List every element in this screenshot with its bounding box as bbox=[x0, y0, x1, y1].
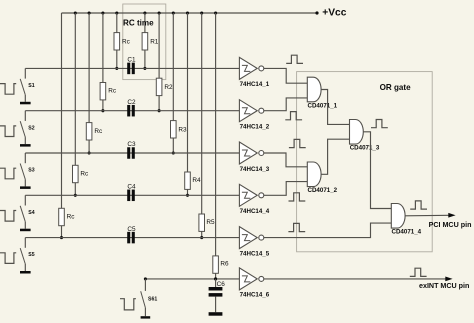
svg-text:S3: S3 bbox=[28, 168, 34, 174]
resistor Rc1 bbox=[114, 33, 131, 50]
svg-text:S61: S61 bbox=[148, 297, 157, 303]
svg-text:Rc: Rc bbox=[122, 38, 131, 45]
label: exINT MCU pin bbox=[419, 282, 469, 290]
wire: 74HC14_6 output to exINT MCU pin (arrow) bbox=[264, 277, 453, 282]
Schmitt inverter 74HC14_3 bbox=[239, 142, 269, 173]
svg-text:S4: S4 bbox=[28, 210, 34, 216]
svg-text:R6: R6 bbox=[220, 261, 229, 268]
wire: +Vcc rail to resistor R1 top (x=144.9) bbox=[144, 13, 146, 33]
capacitor C3 (series) bbox=[127, 141, 136, 159]
wire: +Vcc rail to resistor R4 top (x=187.5) bbox=[187, 13, 189, 172]
node: R6/C6 junction on row 6 bbox=[214, 277, 217, 280]
wire: resistor R3 bottom to row node bbox=[172, 138, 174, 153]
svg-text:74HC14_4: 74HC14_4 bbox=[240, 208, 270, 215]
junction on +Vcc rail col x=144.9 bbox=[143, 11, 146, 14]
svg-text:CD4071_3: CD4071_3 bbox=[350, 145, 380, 152]
capacitor C1 (series) bbox=[127, 57, 136, 75]
wire: CD4071_2 output to CD4071_3 input B bbox=[321, 139, 349, 174]
wire: +Vcc rail to resistor Rc5 top (x=61.5) bbox=[61, 13, 63, 208]
switch S3 (pushbutton to ground) bbox=[20, 153, 35, 189]
svg-text:R5: R5 bbox=[206, 219, 215, 226]
node: junction of Rc2 on row bbox=[101, 109, 104, 112]
svg-text:74HC14_1: 74HC14_1 bbox=[240, 81, 270, 88]
resistor Rc2 bbox=[100, 83, 117, 100]
waveform icon (negative pulse) at S4 bbox=[0, 211, 16, 222]
RC time dashed box bbox=[123, 4, 166, 80]
wire: row 2 horizontal (switch S2 to 74HC14_2 input) bbox=[25, 110, 239, 112]
wire: resistor R2 bottom to row node bbox=[158, 96, 160, 111]
node: rail terminal dot at +Vcc bbox=[315, 11, 318, 14]
svg-text:C5: C5 bbox=[127, 226, 136, 233]
waveform icon (negative pulse) at S61 bbox=[120, 299, 136, 310]
wire: row 6 horizontal (S61 node to 74HC14_6 input) bbox=[145, 278, 239, 280]
waveform icon (negative pulse) at S3 bbox=[0, 168, 16, 179]
OR gate CD4071_1 bbox=[307, 77, 337, 109]
waveform icon (positive pulse) at 74HC14_1 output bbox=[286, 55, 303, 63]
svg-text:S1: S1 bbox=[28, 83, 34, 89]
Schmitt inverter 74HC14_5 bbox=[239, 227, 269, 258]
wire: resistor R6 bottom to row node bbox=[215, 273, 217, 279]
wire: +Vcc rail to resistor R3 top (x=173.3) bbox=[172, 13, 174, 121]
wire: row 4 horizontal (switch S4 to 74HC14_4 input) bbox=[25, 194, 239, 196]
node: junction of R4 on row bbox=[186, 194, 189, 197]
node: S61 junction on row 6 bbox=[144, 277, 147, 280]
svg-text:S2: S2 bbox=[28, 125, 34, 131]
svg-text:Rc: Rc bbox=[80, 171, 89, 178]
svg-text:Rc: Rc bbox=[94, 128, 103, 135]
waveform icon (positive pulse) at CD4071_3 output bbox=[371, 120, 388, 128]
svg-text:PCI MCU pin: PCI MCU pin bbox=[429, 221, 472, 229]
wire: CD4071_4 output to PCI MCU pin (arrow) bbox=[405, 213, 456, 218]
wire: CD4071_1 output to CD4071_3 input A bbox=[321, 90, 349, 125]
node: junction of R2 on row bbox=[158, 109, 161, 112]
wire: resistor Rc3 bottom to row node bbox=[88, 140, 90, 153]
resistor R1 bbox=[142, 33, 159, 50]
label: PCI MCU pin bbox=[429, 221, 472, 229]
wire: resistor R4 bottom to row node bbox=[187, 189, 189, 195]
Schmitt inverter 74HC14_1 bbox=[239, 57, 269, 88]
switch S61 (pushbutton to ground) bbox=[141, 279, 158, 319]
wire: +Vcc rail to resistor Rc4 top (x=75.3) bbox=[74, 13, 76, 165]
node: junction of R3 on row bbox=[172, 151, 175, 154]
Schmitt inverter 74HC14_6 bbox=[239, 268, 269, 299]
wire: 74HC14_5 output to CD4071_4 input B bbox=[264, 223, 391, 238]
resistor Rc4 bbox=[73, 165, 90, 182]
wire: resistor R1 bottom to row node bbox=[144, 50, 146, 68]
+Vcc label bbox=[322, 8, 346, 19]
node: junction of Rc3 on row bbox=[88, 151, 91, 154]
svg-text:R2: R2 bbox=[164, 84, 173, 91]
wire: +Vcc rail to resistor Rc2 top (x=102.9) bbox=[102, 13, 104, 83]
wire: resistor Rc1 bottom to row node bbox=[116, 50, 118, 68]
wire: resistor Rc5 bottom to row node bbox=[61, 226, 63, 238]
+Vcc power rail wire bbox=[62, 12, 318, 14]
resistor R2 bbox=[156, 78, 173, 95]
Schmitt inverter 74HC14_4 bbox=[239, 184, 269, 215]
svg-text:RC time: RC time bbox=[123, 18, 154, 27]
OR gate dashed box bbox=[297, 72, 433, 252]
capacitor C2 (series) bbox=[127, 99, 136, 117]
junction on +Vcc rail col x=116.8 bbox=[115, 11, 118, 14]
capacitor C5 (series) bbox=[127, 226, 136, 244]
wire: row 3 horizontal (switch S3 to 74HC14_3 input) bbox=[25, 152, 239, 154]
wire: 74HC14_1 output to CD4071_1 input A bbox=[264, 68, 307, 83]
wire: +Vcc rail to resistor Rc1 top (x=116.8) bbox=[116, 13, 118, 33]
junction on +Vcc rail col x=187.5 bbox=[186, 11, 189, 14]
resistor Rc5 bbox=[59, 208, 76, 225]
waveform icon (positive pulse) at 74HC14_4 output bbox=[289, 193, 306, 201]
capacitor C6 bbox=[209, 281, 226, 297]
svg-text:S5: S5 bbox=[28, 252, 34, 258]
junction on +Vcc rail col x=75.3 bbox=[74, 11, 77, 14]
svg-text:74HC14_6: 74HC14_6 bbox=[240, 292, 270, 299]
wire: +Vcc rail to resistor R2 top (x=159.1) bbox=[158, 13, 160, 78]
svg-text:exINT MCU pin: exINT MCU pin bbox=[419, 282, 469, 290]
resistor R3 bbox=[171, 121, 188, 138]
svg-text:74HC14_2: 74HC14_2 bbox=[240, 124, 270, 131]
wire: row 6 junction down to capacitor C6 bbox=[215, 279, 217, 287]
switch S4 (pushbutton to ground) bbox=[20, 195, 35, 231]
wire: 74HC14_3 output to CD4071_2 input A bbox=[264, 153, 307, 167]
junction on +Vcc rail col x=215.6 bbox=[214, 11, 217, 14]
waveform icon (negative pulse) at S2 bbox=[0, 126, 16, 137]
svg-text:OR gate: OR gate bbox=[380, 83, 412, 92]
resistor R5 bbox=[199, 214, 215, 231]
svg-text:C2: C2 bbox=[127, 99, 136, 106]
wire: +Vcc rail to resistor Rc3 top (x=89.1) bbox=[88, 13, 90, 123]
switch S5 (pushbutton to ground) bbox=[20, 238, 35, 274]
svg-text:R1: R1 bbox=[150, 38, 159, 45]
svg-text:CD4071_2: CD4071_2 bbox=[308, 187, 338, 194]
svg-text:C4: C4 bbox=[127, 184, 136, 191]
Schmitt inverter 74HC14_2 bbox=[239, 100, 269, 131]
node: junction of Rc5 on row bbox=[60, 236, 63, 239]
OR gate CD4071_2 bbox=[307, 162, 337, 194]
junction on +Vcc rail col x=173.3 bbox=[172, 11, 175, 14]
svg-text:Rc: Rc bbox=[67, 214, 76, 221]
resistor Rc3 bbox=[86, 123, 103, 140]
waveform icon (positive pulse) at 74HC14_5 output bbox=[288, 223, 305, 231]
node: junction of R1 on row bbox=[143, 67, 146, 70]
OR gate CD4071_4 bbox=[391, 204, 421, 236]
svg-text:R3: R3 bbox=[178, 126, 187, 133]
svg-text:R4: R4 bbox=[192, 177, 201, 184]
svg-text:74HC14_5: 74HC14_5 bbox=[240, 250, 270, 257]
svg-text:C6: C6 bbox=[217, 281, 226, 288]
wire: resistor Rc2 bottom to row node bbox=[102, 100, 104, 111]
waveform icon (positive pulse) at 74HC14_3 output bbox=[289, 139, 306, 147]
svg-text:C1: C1 bbox=[127, 57, 136, 64]
svg-text:Rc: Rc bbox=[108, 88, 117, 95]
waveform icon (positive pulse) at PCI MCU pin bbox=[410, 201, 427, 209]
waveform icon (positive pulse) at 74HC14_2 output bbox=[285, 112, 302, 120]
waveform icon (negative pulse) at S1 bbox=[0, 84, 16, 95]
wire: +Vcc rail to resistor R5 top (x=201.7) bbox=[201, 13, 203, 214]
svg-text:CD4071_4: CD4071_4 bbox=[392, 229, 422, 236]
wire: +Vcc rail to resistor R6 top (x=215.6) bbox=[215, 13, 217, 256]
resistor R6 bbox=[213, 256, 229, 273]
resistor R4 bbox=[185, 172, 201, 189]
node: junction of R5 on row bbox=[200, 236, 203, 239]
wire: 74HC14_2 output to CD4071_1 input B bbox=[264, 98, 307, 111]
OR gate CD4071_3 bbox=[350, 120, 380, 152]
wire: CD4071_3 output to CD4071_4 input A bbox=[363, 132, 391, 209]
waveform icon (negative pulse) at S5 bbox=[0, 253, 16, 264]
wire: 74HC14_4 output to CD4071_2 input B bbox=[264, 182, 307, 196]
node: junction of Rc1 on row bbox=[115, 67, 118, 70]
wire: C6 bottom to ground bbox=[215, 297, 217, 313]
label: OR gate bbox=[380, 83, 412, 92]
wire: resistor R5 bottom to row node bbox=[201, 231, 203, 237]
junction on +Vcc rail col x=159.1 bbox=[158, 11, 161, 14]
capacitor C4 (series) bbox=[127, 184, 136, 202]
junction on +Vcc rail col x=89.1 bbox=[88, 11, 91, 14]
wire: resistor Rc4 bottom to row node bbox=[74, 183, 76, 196]
wire: row 5 horizontal (switch S5 to 74HC14_5 input) bbox=[25, 237, 239, 239]
label: RC time bbox=[123, 18, 154, 27]
svg-text:74HC14_3: 74HC14_3 bbox=[240, 166, 270, 173]
svg-text:+Vcc: +Vcc bbox=[322, 8, 346, 19]
ground bar under C6 bbox=[209, 312, 223, 316]
junction on +Vcc rail col x=201.7 bbox=[200, 11, 203, 14]
waveform icon (positive pulse) at exINT MCU pin bbox=[410, 268, 427, 276]
wire: row 1 horizontal (switch S1 to 74HC14_1 input) bbox=[25, 67, 239, 69]
switch S1 (pushbutton to ground) bbox=[20, 68, 35, 104]
svg-text:C3: C3 bbox=[127, 141, 136, 148]
junction on +Vcc rail col x=102.9 bbox=[101, 11, 104, 14]
node: junction of Rc4 on row bbox=[74, 194, 77, 197]
switch S2 (pushbutton to ground) bbox=[20, 111, 35, 147]
node: junction of R6 on row bbox=[214, 277, 217, 280]
svg-text:CD4071_1: CD4071_1 bbox=[308, 102, 338, 109]
